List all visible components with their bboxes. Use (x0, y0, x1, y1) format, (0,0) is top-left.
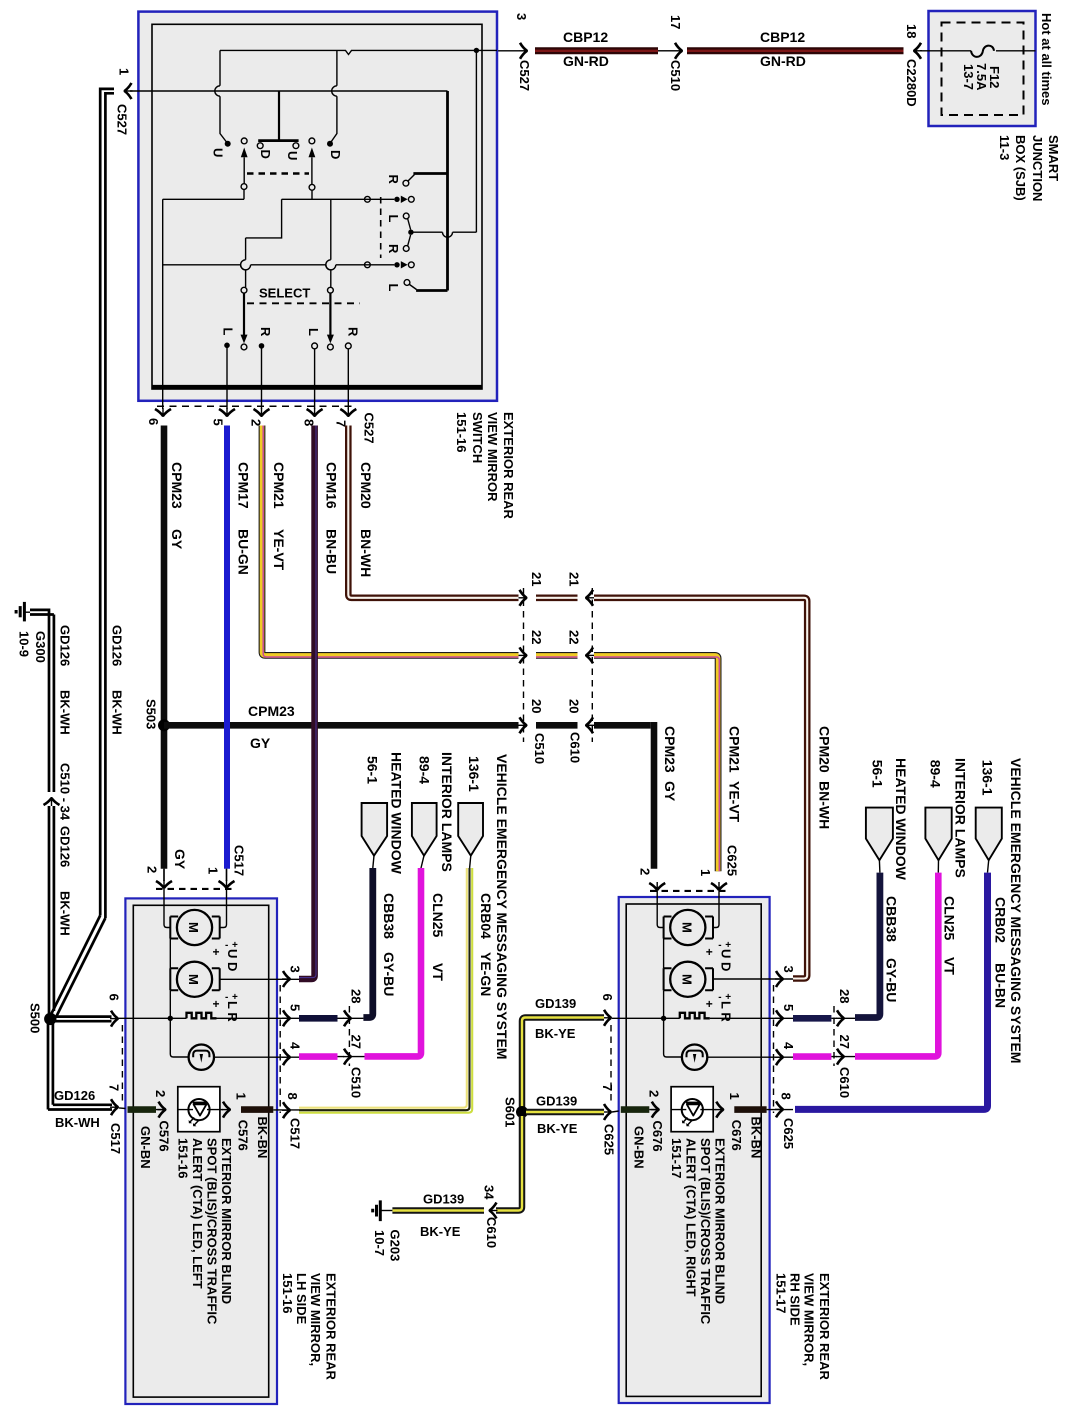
svg-text:3: 3 (288, 966, 303, 973)
fuse F12 7.5A (971, 46, 994, 57)
wire heater to pin 5 right (710, 1017, 793, 1019)
svg-text:GY-BU: GY-BU (381, 952, 397, 996)
motor M left-right (177, 962, 212, 997)
svg-text:CLN25: CLN25 (942, 896, 958, 941)
svg-text:1: 1 (234, 1093, 249, 1100)
svg-text:BK-WH: BK-WH (110, 690, 125, 735)
contact L1 with stem pin 5 (224, 343, 230, 349)
svg-text:YE-VT: YE-VT (727, 781, 743, 823)
svg-text:CPM20: CPM20 (358, 462, 374, 509)
svg-text:VT: VT (942, 957, 958, 975)
svg-text:VIEW MIRROR,: VIEW MIRROR, (308, 1273, 323, 1366)
exterior rear view mirror RH box (619, 897, 770, 1403)
svg-text:89-4: 89-4 (928, 760, 944, 788)
svg-text:R: R (346, 327, 361, 337)
svg-text:C625: C625 (725, 845, 740, 876)
lamp right (682, 1045, 707, 1070)
wire lever D2 from line A (331, 50, 337, 142)
connector C625 pin 2 arrow (649, 882, 665, 891)
connector pin 21 arrows CPM20 (519, 590, 528, 606)
svg-text:GN-BN: GN-BN (631, 1126, 646, 1169)
node S503 (158, 719, 170, 731)
connector C676 pin 1 arrow right (713, 1109, 716, 1111)
svg-text:2: 2 (638, 868, 653, 875)
svg-text:+: + (213, 945, 220, 959)
svg-text:BU-BN: BU-BN (992, 963, 1008, 1008)
node moving contact D2 (327, 141, 333, 147)
mirror RH inner box (626, 904, 761, 1396)
svg-text:5: 5 (288, 1004, 303, 1011)
svg-text:151-16: 151-16 (454, 412, 469, 452)
wire BK-BN LED pin1 to pin 8 right (734, 1106, 766, 1113)
wire bus to heater junction right (663, 990, 665, 1018)
svg-text:+: + (213, 997, 220, 1011)
LED component box (178, 1087, 220, 1132)
node S601 (516, 1106, 528, 1118)
wire CPM17 BU-GN from switch pin 5 (224, 426, 230, 869)
svg-text:4: 4 (781, 1042, 796, 1050)
svg-text:22: 22 (529, 630, 544, 644)
svg-text:CPM23: CPM23 (169, 462, 185, 509)
connector C527 pin 6 arrow (155, 408, 171, 417)
LED symbol (188, 1099, 209, 1120)
wire pin2 internal to motors (657, 891, 663, 928)
svg-text:CBP12: CBP12 (760, 29, 805, 45)
svg-text:INTERIOR LAMPS: INTERIOR LAMPS (953, 758, 969, 878)
svg-text:CBP12: CBP12 (563, 29, 608, 45)
wire GD126 diagonal to S500 (50, 916, 100, 1017)
wire bar feed from line B (278, 91, 280, 141)
svg-text:1: 1 (117, 68, 132, 75)
svg-text:BK-WH: BK-WH (55, 1115, 100, 1130)
svg-text:SPOT (BLIS)/CROSS TRAFFIC: SPOT (BLIS)/CROSS TRAFFIC (205, 1138, 220, 1325)
svg-text:EXTERIOR REAR: EXTERIOR REAR (501, 412, 516, 520)
svg-text:M: M (679, 974, 694, 985)
wire GD126 BK-WH from switch pin 1 (100, 89, 114, 916)
connector C625 pin 4 arrow (775, 1049, 784, 1065)
lever L mid (403, 213, 409, 219)
svg-text:+: + (706, 997, 713, 1011)
svg-text:C610: C610 (484, 1217, 499, 1248)
svg-text:C510: C510 (668, 60, 683, 91)
wire thick vertical L-R feed (446, 91, 449, 291)
wire bus between motors right (663, 939, 665, 969)
svg-text:151-17: 151-17 (669, 1138, 684, 1178)
ground G203 (380, 1210, 392, 1212)
lever L bottom (416, 289, 447, 292)
connector C676 pin 2 arrow right (651, 1102, 660, 1118)
wire contact bar D1-U2 (258, 139, 298, 142)
svg-text:BK-BN: BK-BN (255, 1117, 270, 1159)
wire CBB38 GY-BU left (363, 868, 372, 1018)
svg-text:C610: C610 (837, 1067, 852, 1098)
svg-text:10-9: 10-9 (17, 631, 32, 657)
svg-text:EXTERIOR MIRROR BLIND: EXTERIOR MIRROR BLIND (219, 1138, 234, 1304)
svg-text:ALERT (CTA) LED, RIGHT: ALERT (CTA) LED, RIGHT (683, 1138, 698, 1297)
wire bus to lamp right (664, 1018, 682, 1057)
svg-text:21: 21 (567, 572, 582, 586)
svg-text:1: 1 (206, 867, 221, 874)
connector C625 pin 8 arrow (775, 1101, 784, 1117)
svg-text:27: 27 (837, 1035, 852, 1049)
contact L2 with stem pin 8 (312, 343, 318, 349)
node ring on row 5 (365, 262, 371, 268)
svg-text:GD126: GD126 (58, 625, 73, 666)
svg-text:C527: C527 (362, 413, 377, 444)
svg-text:2: 2 (249, 419, 264, 426)
svg-text:C510: C510 (349, 1067, 364, 1098)
wire GD126 S500 to pin 6 (54, 1017, 112, 1022)
offpage flag VEMS right (976, 808, 1002, 861)
svg-text:SELECT: SELECT (259, 286, 310, 301)
wire pin3 internal right (713, 978, 793, 980)
svg-text:CBB38: CBB38 (381, 893, 397, 939)
svg-text:VEHICLE EMERGENCY MESSAGING SY: VEHICLE EMERGENCY MESSAGING SYSTEM (1008, 758, 1024, 1063)
svg-text:1: 1 (698, 869, 713, 876)
svg-text:34: 34 (482, 1185, 497, 1200)
wire lamp to pin 4 (214, 1056, 299, 1058)
wire VT stub pin 4 (299, 1053, 338, 1060)
connector C576 pin 2 arrow (158, 1102, 167, 1118)
wire CRB04 YE-GN left (299, 868, 467, 1108)
svg-text:GD139: GD139 (536, 1094, 577, 1109)
exterior rear view mirror switch S1 box (138, 12, 497, 401)
wire bus between motors (169, 939, 171, 969)
svg-text:20: 20 (567, 699, 582, 713)
node line A junction (474, 48, 479, 53)
connector dashed line top pins (156, 888, 234, 890)
svg-text:D: D (258, 150, 273, 159)
svg-text:SPOT (BLIS)/CROSS TRAFFIC: SPOT (BLIS)/CROSS TRAFFIC (698, 1138, 713, 1325)
select wiper 2 (328, 287, 334, 293)
svg-text:GD126: GD126 (58, 826, 73, 867)
motor M up-down right (670, 910, 705, 945)
svg-text:CPM16: CPM16 (324, 462, 340, 509)
connector C517 pin 8 arrow (282, 1102, 291, 1118)
offpage flag heated window left (362, 803, 388, 856)
svg-text:GD139: GD139 (423, 1192, 464, 1207)
svg-text:5: 5 (781, 1004, 796, 1011)
svg-text:BK-YE: BK-YE (537, 1121, 578, 1136)
wire line A from pin 3 (220, 50, 497, 54)
offpage flag interior lamps left (412, 803, 437, 856)
wire CLN25 VT right (855, 873, 938, 1057)
wire VT stub pin 4 right (793, 1053, 831, 1060)
svg-text:11-3: 11-3 (997, 135, 1012, 160)
svg-text:CPM20: CPM20 (817, 726, 833, 773)
svg-text:LH SIDE: LH SIDE (294, 1273, 309, 1325)
switch inner box (152, 24, 482, 389)
wire GD139 BK-YE pin 7 run (526, 1109, 604, 1116)
svg-text:L R: L R (225, 1001, 240, 1022)
wire CRB02 BU-BN right (795, 873, 988, 1110)
svg-text:BK-YE: BK-YE (535, 1026, 576, 1041)
svg-text:VEHICLE EMERGENCY MESSAGING SY: VEHICLE EMERGENCY MESSAGING SYSTEM (494, 754, 510, 1059)
wire lever U1 from line A (220, 50, 227, 142)
wire CPM23 GY down to right mirror pin 2 (651, 722, 658, 869)
connector C527 pin 5 arrow (219, 408, 235, 417)
motor M up-down (177, 910, 212, 945)
svg-text:C676: C676 (729, 1120, 744, 1151)
svg-text:C527: C527 (115, 104, 130, 135)
heater element (187, 1013, 217, 1019)
gang dashed link select (247, 302, 360, 304)
svg-text:C517: C517 (288, 1118, 303, 1149)
wire GN-BN pin7 to LED pin 2 right (621, 1106, 650, 1113)
wire bus to lamp (170, 1018, 188, 1057)
svg-text:GY-BU: GY-BU (884, 958, 900, 1002)
svg-text:EXTERIOR MIRROR BLIND: EXTERIOR MIRROR BLIND (712, 1138, 727, 1304)
svg-text:L: L (386, 215, 401, 223)
svg-text:1: 1 (727, 1093, 742, 1100)
wire heater to pin 5 (217, 1017, 300, 1019)
svg-text:CRB04: CRB04 (478, 893, 494, 939)
connector C527 pin 3 arrow (519, 43, 528, 59)
svg-text:8: 8 (302, 419, 317, 426)
svg-text:GD126: GD126 (54, 1088, 95, 1103)
svg-text:EXTERIOR REAR: EXTERIOR REAR (324, 1273, 339, 1381)
wire select wiper 1 feed (246, 199, 282, 287)
svg-text:2: 2 (153, 1090, 168, 1097)
svg-text:13-7: 13-7 (961, 64, 976, 90)
wire CBP12 GN-RD segment 2 (687, 47, 904, 54)
svg-text:3: 3 (781, 966, 796, 973)
offpage flag VEMS left (458, 803, 483, 856)
connector dashed line right pins (279, 985, 281, 1113)
svg-text:C676: C676 (650, 1121, 665, 1152)
connector C510 pin 27 arrow (343, 1049, 352, 1065)
svg-text:M: M (186, 922, 201, 933)
offpage flag heated window right (866, 808, 893, 861)
svg-text:YE-VT: YE-VT (271, 529, 287, 571)
svg-text:56-1: 56-1 (365, 756, 381, 784)
svg-text:VT: VT (430, 963, 446, 981)
svg-text:S500: S500 (28, 1003, 43, 1033)
svg-text:CPM21: CPM21 (727, 726, 743, 773)
connector C517 pin 4 arrow (282, 1049, 291, 1065)
svg-text:U D: U D (718, 949, 733, 971)
svg-text:R: R (258, 327, 273, 337)
connector dashed line left pins right mirror (610, 1025, 612, 1105)
svg-text:R: R (386, 244, 401, 254)
LED component box right (671, 1087, 713, 1132)
wire bus to heater junction (169, 990, 171, 1018)
lever R upper (413, 172, 447, 175)
svg-text:SWITCH: SWITCH (470, 412, 485, 463)
svg-text:C2280D: C2280D (904, 59, 919, 107)
wire pin 6 internal right (612, 1017, 680, 1019)
svg-text:ALERT (CTA) LED, LEFT: ALERT (CTA) LED, LEFT (190, 1138, 205, 1289)
fixed contact cluster row2 (394, 197, 399, 202)
connector C625 pin 3 arrow (775, 971, 784, 987)
wire hot feed inside SJB (996, 50, 1036, 52)
wire net 199 segment left (163, 198, 244, 200)
svg-text:GD126: GD126 (110, 625, 125, 666)
wire CPM20 BN-WH from switch pin 7 (348, 426, 807, 979)
connector C510 pin 28 arrow (343, 1010, 352, 1026)
svg-text:Hot at all times: Hot at all times (1039, 13, 1054, 105)
connector C527 pin 8 arrow (307, 408, 323, 417)
svg-text:HEATED WINDOW: HEATED WINDOW (389, 752, 405, 875)
connector C625 pin 5 arrow (775, 1010, 784, 1026)
svg-text:VIEW MIRROR,: VIEW MIRROR, (801, 1273, 816, 1366)
svg-text:56-1: 56-1 (870, 760, 886, 788)
svg-text:CPM23: CPM23 (662, 726, 678, 773)
SJB internal dashed box (942, 23, 1024, 116)
svg-text:GN-BN: GN-BN (138, 1126, 153, 1169)
wire GN-BN pin7 to LED pin 2 (128, 1106, 157, 1113)
wire pin3 internal (220, 978, 299, 980)
connector C510 pin 17 arrow (674, 43, 683, 59)
svg-text:28: 28 (837, 989, 852, 1003)
wire GY-BU stub pin 5 right (793, 1015, 831, 1022)
svg-text:BOX (SJB): BOX (SJB) (1013, 135, 1028, 201)
gang dashed link L-R (380, 197, 382, 258)
svg-text:GD139: GD139 (535, 996, 576, 1011)
svg-text:L: L (306, 328, 321, 336)
connector C510 dashed (348, 1006, 350, 1066)
svg-text:3: 3 (514, 13, 529, 20)
connector C510 C610 dashed lines (523, 588, 525, 742)
wire CBP12 GN-RD segment 1 (535, 47, 658, 54)
connector C517 pin 1 arrow (219, 880, 235, 889)
svg-text:D: D (328, 150, 343, 159)
svg-text:RH SIDE: RH SIDE (787, 1273, 802, 1326)
svg-text:10-7: 10-7 (372, 1230, 387, 1256)
fixed contact cluster row5 (394, 262, 399, 267)
svg-text:BK-YE: BK-YE (420, 1224, 461, 1239)
svg-text:C576: C576 (157, 1121, 172, 1152)
connector C610 pin 34 arrow (489, 1203, 498, 1219)
svg-text:SMART: SMART (1046, 135, 1061, 181)
svg-text:GN-RD: GN-RD (760, 53, 806, 69)
svg-text:CPM23: CPM23 (248, 703, 295, 719)
svg-text:C517: C517 (108, 1123, 123, 1154)
wire pin2 internal to motors (164, 889, 170, 928)
gang link 1 (241, 138, 247, 144)
connector C527 pin 1 arrow (130, 90, 152, 92)
svg-text:C610: C610 (568, 732, 583, 763)
wire CPM23 GY from switch pin 6 (161, 426, 168, 869)
svg-text:151-17: 151-17 (773, 1273, 788, 1313)
svg-text:7: 7 (600, 1084, 615, 1091)
svg-text:L R: L R (718, 1001, 733, 1022)
node S500 (44, 1013, 56, 1025)
switch inner box thick bottom bar (152, 385, 482, 390)
LED symbol right (682, 1099, 703, 1120)
svg-text:CBB38: CBB38 (884, 896, 900, 942)
svg-text:6: 6 (107, 994, 122, 1001)
svg-text:151-16: 151-16 (176, 1138, 191, 1178)
wire CBB38 GY-BU right (855, 873, 880, 1018)
svg-text:GY: GY (662, 781, 678, 802)
connector C610 dashed right (833, 1006, 835, 1066)
svg-text:JUNCTION: JUNCTION (1030, 135, 1045, 201)
node ring on net 199 (365, 196, 371, 202)
svg-text:5: 5 (211, 419, 226, 426)
LED wires to box edge right (671, 1109, 713, 1111)
svg-text:28: 28 (349, 989, 364, 1003)
wire GD126 S500 down to pin 7 (48, 1022, 53, 1110)
svg-text:C510: C510 (532, 733, 547, 764)
connector dashed line below switch (157, 405, 352, 407)
svg-text:S601: S601 (503, 1097, 518, 1127)
svg-text:BK-WH: BK-WH (58, 690, 73, 735)
svg-text:CRB02: CRB02 (992, 897, 1008, 943)
svg-text:YE-GN: YE-GN (478, 952, 494, 996)
wire net 199 segment right (282, 198, 395, 200)
connector C527 pin 7 arrow (340, 408, 356, 417)
smart junction box U1 (929, 11, 1036, 126)
svg-text:BN-WH: BN-WH (817, 781, 833, 829)
svg-text:GY: GY (172, 849, 188, 870)
wire pin1 internal to motor1 (220, 889, 227, 928)
svg-text:27: 27 (349, 1035, 364, 1049)
node heater junction right (661, 1016, 666, 1021)
select wiper 1 (241, 287, 247, 293)
wire GD139 BK-YE ground leg (392, 1207, 484, 1214)
svg-text:GY: GY (250, 735, 271, 751)
svg-text:S503: S503 (144, 699, 159, 729)
svg-text:G300: G300 (33, 631, 48, 663)
mirror LH inner box (133, 905, 268, 1397)
wire CPM21 YE-VT from switch pin 2 (262, 426, 719, 872)
wire GD126 BK-WH ground leg (30, 610, 49, 792)
svg-text:U: U (285, 151, 300, 160)
svg-text:2: 2 (646, 1090, 661, 1097)
wire row 5 (163, 264, 395, 266)
connector dashed line right pins right mirror (773, 985, 775, 1113)
wire GY-BU stub pin 5 (299, 1015, 338, 1022)
svg-text:136-1: 136-1 (466, 756, 482, 792)
svg-text:18: 18 (904, 24, 919, 38)
svg-text:20: 20 (529, 699, 544, 713)
connector C517 pin 3 arrow (282, 971, 291, 987)
svg-text:L: L (386, 284, 401, 292)
connector C625 pin 6 arrow (603, 1010, 612, 1026)
exterior rear view mirror LH box (125, 898, 277, 1404)
wire lamp to pin 4 right (707, 1056, 793, 1058)
svg-text:INTERIOR LAMPS: INTERIOR LAMPS (439, 752, 455, 872)
svg-text:CPM21: CPM21 (271, 462, 287, 509)
svg-text:BN-WH: BN-WH (358, 529, 374, 577)
wire select wiper 2 feed (330, 199, 332, 287)
svg-text:CPM17: CPM17 (236, 462, 252, 509)
svg-text:CLN25: CLN25 (430, 893, 446, 938)
svg-text:C527: C527 (517, 60, 532, 91)
svg-text:2: 2 (145, 866, 160, 873)
wire line B from pin 1 (152, 90, 448, 92)
connector C610 pin 28 arrow (836, 1010, 845, 1026)
svg-text:BK-BN: BK-BN (748, 1117, 763, 1159)
wire left stem to pin 6 (162, 199, 164, 409)
gang link 2 (309, 138, 315, 144)
svg-text:C576: C576 (236, 1120, 251, 1151)
svg-text:21: 21 (529, 572, 544, 586)
svg-text:EXTERIOR REAR: EXTERIOR REAR (817, 1273, 832, 1381)
connector C517 pin 7 arrow (110, 1099, 119, 1115)
wire GD139 BK-YE pin 6 run (522, 1018, 604, 1109)
svg-text:HEATED WINDOW: HEATED WINDOW (893, 758, 909, 881)
connector C527 pin 2 arrow (254, 408, 270, 417)
svg-text:136-1: 136-1 (980, 760, 996, 796)
connector C517 pin 2 arrow (156, 880, 172, 889)
connector C625 pin 1 arrow (711, 882, 727, 891)
wire GD126 BK-WH to S500 (49, 806, 54, 1016)
connector pin 20 arrows CPM23 (519, 717, 528, 733)
lamp (189, 1045, 214, 1070)
connector C625 pin 7 arrow (603, 1104, 612, 1120)
